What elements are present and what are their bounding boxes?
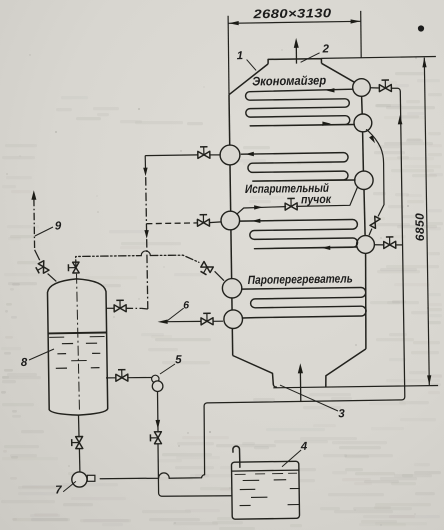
boiler hopper bottom <box>233 356 274 385</box>
label 5 pointer <box>160 364 175 374</box>
pipe R1 to valve <box>370 87 379 89</box>
pump 7 outlet box <box>87 475 95 481</box>
header L2 <box>221 211 240 230</box>
reference line top (drum level) <box>321 57 436 59</box>
boiler casing top-left slope <box>229 64 268 95</box>
valve above pump 7 <box>76 443 83 449</box>
dimension line 6850 vertical with arrowheads <box>424 58 429 386</box>
dimension extension line right <box>360 11 363 58</box>
tank 4 vent hook pipe <box>233 446 240 467</box>
label 8 pointer <box>29 349 54 360</box>
vessel 8 centre axis (dash-dot) <box>77 274 80 412</box>
svg-text:8: 8 <box>21 357 28 369</box>
valve at drum R1 <box>385 85 391 92</box>
boiler casing top-right slope <box>322 63 355 82</box>
crossing hop pump7 line over pump5 line <box>100 473 169 479</box>
header L4 <box>224 310 243 329</box>
boiler casing left wall <box>229 95 233 356</box>
vent line 9 (dash-dot) with valve <box>33 199 36 250</box>
flow arrow into L1 <box>245 152 254 156</box>
valve on bypass <box>370 222 376 228</box>
label 2 pointer <box>301 53 320 63</box>
pipe R4 to riser <box>374 244 383 246</box>
reference line bottom (furnace floor) <box>273 386 438 388</box>
valve on pump5 discharge <box>155 438 162 444</box>
standby feed line to L2 (dashed) with valve <box>146 222 197 225</box>
valve on blowdown line <box>120 305 126 312</box>
label 1 pointer <box>247 60 257 71</box>
svg-text:Экономайзер: Экономайзер <box>252 73 327 88</box>
steam outlet line (2) <box>295 46 297 64</box>
flow arrow vent 9 <box>31 190 36 200</box>
flow arrow down header 1 <box>143 168 147 177</box>
flow arrow down header 2 <box>144 230 148 239</box>
svg-text:пучок: пучок <box>301 192 332 206</box>
svg-text:6: 6 <box>183 299 189 311</box>
valve on L2-R3 line <box>291 203 297 210</box>
flue gas inlet line 3 <box>299 372 301 401</box>
flow arrow blowoff 6 <box>158 320 168 324</box>
label 7 pointer <box>63 481 76 491</box>
blowdown line vessel8 to header with valve <box>105 307 114 309</box>
svg-text:Пароперегреватель: Пароперегреватель <box>248 271 353 287</box>
drum R4 <box>357 236 375 254</box>
flow arrow down to valve <box>156 420 161 429</box>
drum R2 <box>354 114 372 132</box>
vessel 8 water dashes <box>62 343 73 345</box>
evaporator coil upper <box>241 153 355 182</box>
superheater coil <box>242 287 366 318</box>
blowoff line from L4 with valve <box>213 320 223 322</box>
boiler casing right wall (between drums) <box>361 96 364 114</box>
valve on vessel8-L3 steam line <box>207 267 213 273</box>
label 6 pointer <box>168 308 184 320</box>
feed header vertical (dash-dot) <box>144 156 146 170</box>
vessel 8 water level line <box>48 332 107 335</box>
boiler casing top shoulder line <box>268 62 321 65</box>
svg-text:3: 3 <box>338 408 345 420</box>
flow arrow from R4 <box>322 246 331 250</box>
valve at drum R4 <box>390 241 396 248</box>
drum R3 <box>355 171 373 189</box>
svg-text:7: 7 <box>55 484 62 496</box>
riser bypass R2 to R4 with valve <box>367 130 385 216</box>
flow arrow economizer inlet <box>326 88 335 92</box>
valve at header L1 <box>204 151 210 158</box>
boiler top cap (flue outlet) <box>268 59 321 64</box>
pipe pump5 to tank4 with valve <box>157 392 160 432</box>
valve at header L2 <box>204 219 210 226</box>
svg-text:6850: 6850 <box>413 213 427 242</box>
valve above vessel 8 <box>73 268 79 273</box>
pipe R4 bottom-right diagonal <box>370 233 371 238</box>
pipe vessel8 to pump5 with valve <box>106 377 116 379</box>
steam line vessel8 to L3 (dash-dot-dot) <box>76 256 142 268</box>
flow arrow economizer outlet <box>322 122 331 126</box>
flow arrow up riser <box>398 115 403 124</box>
label 9 pointer <box>35 227 53 236</box>
svg-text:5: 5 <box>175 354 182 366</box>
tank 4 body <box>231 461 299 519</box>
pipe riser from valve down to bottom header <box>169 88 405 478</box>
svg-text:1: 1 <box>237 50 244 62</box>
tank 4 water level <box>232 470 299 471</box>
header L3 <box>222 279 241 298</box>
dimension extension line left <box>227 16 230 95</box>
flow arrow on L2-R3 line <box>254 205 263 209</box>
valve on vent line <box>43 267 49 273</box>
header L1 <box>220 145 240 165</box>
pipe L2 to R3 with valve <box>237 207 286 215</box>
svg-text:4: 4 <box>300 441 308 453</box>
dimension line 2680x3130 with arrowheads <box>228 21 361 23</box>
stray ink dot top right <box>418 25 424 31</box>
downcomer R1-R2 <box>361 96 364 114</box>
pump 5 <box>152 381 163 392</box>
valve on blowoff line <box>207 318 213 325</box>
pump 7 <box>72 472 87 487</box>
drum R1 (top right) <box>353 79 371 97</box>
svg-text:2: 2 <box>321 43 329 55</box>
label 4 pointer <box>282 450 301 467</box>
vessel 8 body <box>48 279 108 415</box>
svg-text:9: 9 <box>55 220 62 232</box>
label 3 pointer <box>280 385 338 411</box>
flow arrow into L2 <box>252 219 261 223</box>
tank 4 water dashes <box>243 479 260 481</box>
evaporator coil lower <box>240 219 358 248</box>
feed line to L1 with valve <box>145 154 198 157</box>
valve vessel8-pump5 <box>122 374 128 381</box>
economizer coil <box>246 89 355 126</box>
pump 5 volute <box>152 375 159 382</box>
pipe vessel8 bottom to pump7 with valve <box>78 416 81 437</box>
svg-text:2680×3130: 2680×3130 <box>252 6 331 21</box>
